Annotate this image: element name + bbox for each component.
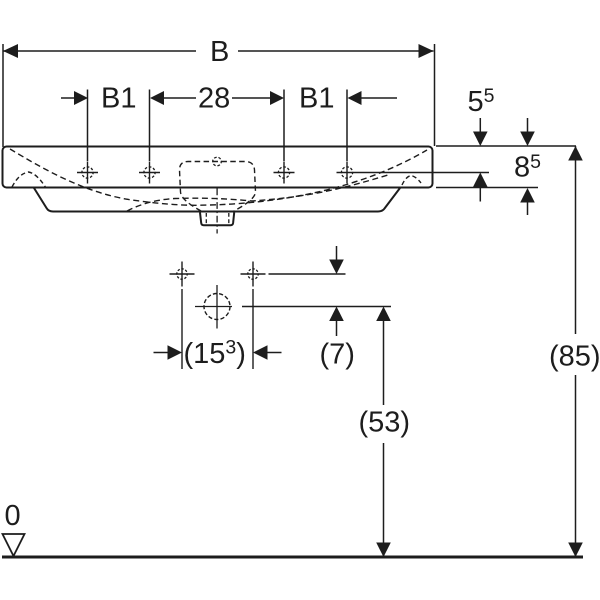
dimension 7 down arrow (336, 246, 338, 260)
dimension 15.3 left arrow (154, 352, 169, 354)
svg-text:(53): (53) (359, 407, 411, 439)
dimension 53 up arrowhead (376, 307, 391, 322)
svg-text:55: 55 (468, 85, 495, 118)
svg-text:(7): (7) (320, 339, 355, 371)
drain outlet (200, 213, 234, 226)
faucet hole 3 (274, 162, 295, 184)
mounting hole left (170, 262, 195, 287)
svg-text:B1: B1 (101, 83, 136, 115)
dimension 8.5 bottom extension line (436, 187, 538, 189)
bump right dashed (402, 176, 421, 186)
dimension B arrowhead left (3, 44, 18, 58)
svg-text:B1: B1 (299, 83, 334, 115)
datum triangle (3, 534, 25, 556)
dimension B1 left arrow (61, 97, 75, 99)
dimension 5.5 down arrow left (479, 118, 481, 133)
dimension B1 right arrow (348, 91, 362, 105)
siphon level line (242, 306, 391, 308)
dimension 15.3 right arrow (253, 345, 268, 360)
dimension 85 down arrowhead (568, 543, 583, 558)
dimension 8.5 up arrow (520, 188, 535, 203)
svg-text:(153): (153) (184, 337, 246, 371)
basin bowl back curve dashed (10, 149, 427, 205)
mounting holes level line (269, 273, 346, 275)
faucet hole 4 (337, 162, 358, 184)
tap deck trapezoid dashed (180, 162, 256, 212)
dimension B extension line right (434, 44, 436, 146)
faucet hole 3 extension line (283, 90, 285, 162)
dimension B extension line left (2, 44, 4, 147)
overflow bump left dashed (12, 172, 46, 188)
siphon hole centerlines (195, 306, 232, 308)
siphon hole dashed circle (204, 294, 230, 320)
dimension 85 up arrowhead (568, 146, 583, 161)
drain centerline (216, 189, 218, 234)
mounting hole right extension line (252, 289, 254, 369)
svg-text:(85): (85) (549, 341, 600, 373)
dimension 8.5 down arrow (527, 118, 529, 133)
dimension 85 line lower (575, 375, 577, 557)
dimension 7 up arrow (329, 307, 344, 322)
mounting hole right (241, 262, 266, 287)
svg-text:85: 85 (514, 151, 541, 184)
overflow hole dashed circle (213, 157, 222, 166)
faucet hole centerline extension (358, 172, 490, 174)
drain hidden edges dashed (205, 213, 207, 225)
dimension 53 down arrowhead (376, 543, 391, 558)
faucet hole 1 (77, 162, 98, 184)
dimension 85 line upper (575, 146, 577, 334)
dimension B arrowhead right (419, 44, 434, 58)
faucet hole 2 (139, 162, 160, 184)
dimension B line right segment (238, 50, 434, 52)
basin apron (34, 188, 400, 212)
mounting hole left extension line (181, 289, 183, 369)
faucet hole 4 extension line (346, 90, 348, 162)
dimension 53 line lower (383, 443, 385, 557)
basin outer rim (3, 147, 433, 188)
svg-text:0: 0 (5, 500, 21, 532)
dimension 28 arrow left (150, 91, 164, 105)
dimension 5.5 extension top line (436, 145, 576, 147)
floor baseline (2, 556, 583, 559)
basin bowl front edge dashed (127, 175, 388, 211)
dimension 5.5 up arrow (473, 173, 488, 188)
dimension 53 line upper (383, 321, 385, 405)
dimension 28 arrow right (232, 97, 270, 99)
svg-text:B: B (210, 36, 229, 68)
faucet hole 1 extension line (87, 90, 89, 162)
dimension B line left segment (3, 50, 196, 52)
svg-text:28: 28 (198, 83, 230, 115)
faucet hole 2 extension line (149, 90, 151, 162)
